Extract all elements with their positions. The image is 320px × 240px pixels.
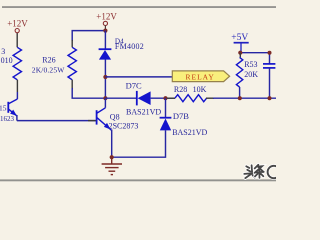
transistor Q?15 (cut at left edge) base bar xyxy=(7,102,9,113)
wire: R28 to R53 node xyxy=(213,97,276,99)
wire: Q8 base pin stub xyxy=(88,120,96,122)
svg-text:3: 3 xyxy=(1,47,5,56)
transistor Q?15 emitter arrow xyxy=(10,110,17,116)
svg-text:+5V: +5V xyxy=(231,33,248,43)
RELAY net port flag xyxy=(172,71,229,82)
watermark 条 glyph xyxy=(255,165,264,178)
sheet background xyxy=(0,0,276,184)
svg-text:R53: R53 xyxy=(244,60,257,69)
resistor R28 pin stub left xyxy=(167,97,175,99)
svg-text:1623: 1623 xyxy=(0,115,15,123)
power port +12V (middle) circle xyxy=(103,21,107,25)
wire: +12V left rail top xyxy=(16,33,18,48)
svg-text:BAS21VD: BAS21VD xyxy=(172,128,207,137)
wire: D7B anode down and left to emitter net xyxy=(112,130,166,157)
diode D7B cathode bar xyxy=(160,117,172,119)
junction dot at Q8 collector node xyxy=(103,96,107,100)
power port +5V stem xyxy=(240,44,242,53)
power port +5V bar xyxy=(234,42,249,44)
diode D4 cathode bar xyxy=(99,48,112,50)
svg-text:2K/0.25W: 2K/0.25W xyxy=(32,65,65,74)
wire: left rail to transistor collector xyxy=(16,92,18,99)
transistor Q8 base bar xyxy=(96,110,98,124)
svg-text:20K: 20K xyxy=(244,70,258,79)
resistor R?3 (cut at left edge, designator ends in 3) xyxy=(13,47,21,80)
resistor R28 zigzag xyxy=(175,95,207,102)
junction dot at R53 bottom xyxy=(238,96,242,100)
diode D7B top lead xyxy=(165,98,167,118)
resistor R26 zigzag xyxy=(68,47,76,80)
resistor R28 pin stub right xyxy=(206,97,214,99)
diode D4 triangle (anode, pointing up) xyxy=(99,50,111,60)
power port +12V (left) circle xyxy=(15,29,19,33)
svg-text:BAS21VD: BAS21VD xyxy=(126,108,161,117)
sheet bottom border xyxy=(0,179,276,181)
diode D4 top lead from +12V node xyxy=(104,31,106,50)
wire: base net, left transistor emitter to Q8 base xyxy=(17,120,97,122)
power port +12V (middle) stick xyxy=(104,26,106,30)
capacitor C?? bottom plate xyxy=(263,67,275,69)
diode D7B triangle (anode, pointing up) xyxy=(160,119,171,131)
transistor Q?15 collector lead xyxy=(8,99,17,104)
svg-text:R26: R26 xyxy=(42,56,55,65)
svg-text:010: 010 xyxy=(1,56,13,65)
capacitor C?? top plate xyxy=(263,63,275,65)
wire: left resistor bottom pin xyxy=(16,80,18,92)
wire: emitter of left transistor down xyxy=(16,115,18,121)
wire: capacitor bottom lead xyxy=(269,68,271,98)
transistor Q?15 emitter lead xyxy=(8,109,17,116)
wire: Q8 emitter down to ground net xyxy=(111,130,113,158)
wire: R26 bottom to collector net xyxy=(72,88,105,98)
transistor Q8 emitter arrow xyxy=(104,123,111,130)
ground symbol xyxy=(102,157,122,174)
resistor R53 top pin stub xyxy=(239,53,241,58)
wire: R53 bottom pin xyxy=(239,87,241,98)
diode D7C left lead xyxy=(105,97,136,99)
diode D7C triangle (anode, pointing left) xyxy=(138,91,151,105)
junction dot at D7B node xyxy=(163,96,167,100)
svg-text:R28: R28 xyxy=(174,85,187,94)
transistor Q8 emitter lead xyxy=(97,117,112,130)
wire: D7C anode to R28 xyxy=(151,97,175,99)
sheet top border xyxy=(2,6,276,8)
svg-text:15: 15 xyxy=(0,103,7,112)
junction dot at capacitor bottom xyxy=(267,96,271,100)
wire: +12V middle node horizontal to R26 xyxy=(72,31,105,41)
svg-text:D7B: D7B xyxy=(173,111,189,121)
svg-text:FM4002: FM4002 xyxy=(115,42,144,51)
transistor Q8 collector lead xyxy=(97,108,106,114)
wire: R26 bottom pin stub xyxy=(71,80,73,89)
junction dot at +5V node xyxy=(238,51,242,55)
junction dot at capacitor top corner xyxy=(268,51,272,55)
svg-text:+12V: +12V xyxy=(7,19,28,29)
svg-text:10K: 10K xyxy=(193,85,207,94)
diode D7C cathode bar xyxy=(136,91,138,106)
svg-text:RELAY: RELAY xyxy=(186,72,215,81)
junction dot at relay coil node xyxy=(103,75,107,79)
resistor R53 zigzag xyxy=(236,57,242,87)
wire: relay node to RELAY port xyxy=(105,76,172,78)
wire: Q8 collector up to node xyxy=(104,98,106,108)
junction dot at +12V/D4 node xyxy=(103,29,107,33)
svg-text:Q8: Q8 xyxy=(110,112,120,121)
junction dot at emitter/ground node xyxy=(110,155,114,159)
wire: +5V node to capacitor branch xyxy=(240,53,269,64)
svg-text:2SC2873: 2SC2873 xyxy=(109,121,139,130)
watermark @ ring (cut at right edge) xyxy=(268,166,280,178)
wire: D4 anode down to relay node xyxy=(104,60,106,99)
watermark 头 glyph (gray with white halo) xyxy=(244,165,255,178)
wire: R26 top pin stub xyxy=(71,40,73,47)
svg-text:+12V: +12V xyxy=(96,11,117,21)
svg-text:D7C: D7C xyxy=(126,80,142,90)
